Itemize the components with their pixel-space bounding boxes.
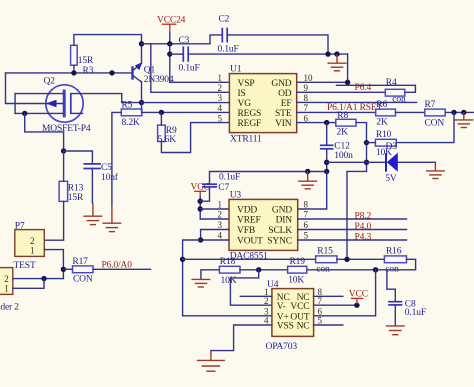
node rail mid <box>109 70 114 75</box>
wire U1 pin3 VG <box>142 102 230 104</box>
node Q1 collector top <box>139 41 144 46</box>
wire R8 right down to D3 node <box>347 123 367 260</box>
svg-text:TEST: TEST <box>14 261 36 271</box>
svg-text:8.2K: 8.2K <box>122 118 140 128</box>
svg-text:CON: CON <box>425 118 445 128</box>
resistor R16 <box>384 247 406 275</box>
resistor R4 <box>385 78 406 104</box>
wire U4 pin1 NC stub <box>240 295 272 297</box>
svg-text:R8: R8 <box>337 111 348 121</box>
node R3-rail <box>71 70 76 75</box>
svg-text:1: 1 <box>4 283 9 293</box>
svg-text:SYNC: SYNC <box>267 237 292 247</box>
svg-text:2: 2 <box>4 274 9 284</box>
wire pin10 GND <box>297 54 348 82</box>
svg-text:VSP: VSP <box>238 79 255 89</box>
wire node to R13 <box>63 151 65 181</box>
wire VCC stem to U3 pin2 <box>200 197 229 219</box>
svg-text:2: 2 <box>264 296 269 306</box>
ground top right <box>328 54 347 71</box>
svg-text:2K: 2K <box>376 117 388 127</box>
wire R5 left down to ground <box>112 112 121 205</box>
op-amp U1 XTR111 <box>218 65 314 145</box>
svg-text:3: 3 <box>218 93 223 103</box>
wire U1 pin7 STE to R6 <box>297 111 376 113</box>
svg-text:5.6K: 5.6K <box>158 135 176 145</box>
capacitor C7 <box>202 172 240 193</box>
svg-text:DIN: DIN <box>276 216 293 226</box>
wire U3 pin8 GND up to rail <box>298 172 327 210</box>
svg-text:1: 1 <box>30 245 35 255</box>
ground under R18 left <box>191 279 210 287</box>
node C12 top <box>324 120 329 125</box>
svg-text:Header 2: Header 2 <box>0 303 19 313</box>
svg-text:GND: GND <box>271 79 291 89</box>
svg-text:2K: 2K <box>337 128 349 138</box>
node C3 rail <box>167 51 172 56</box>
svg-text:7: 7 <box>318 296 323 306</box>
capacitor C2 <box>218 15 239 55</box>
node R15/R16 tap <box>344 257 349 262</box>
node R7 ground <box>461 110 466 115</box>
wire U3 pin6 SCLK <box>298 229 407 231</box>
resistor R3 <box>71 45 94 76</box>
wire R13 to P7 pin2 <box>44 201 63 240</box>
power VCC for U4 <box>349 290 368 305</box>
wire node to C5 <box>64 151 93 164</box>
resistor R18 <box>219 257 240 286</box>
svg-text:6: 6 <box>304 113 309 123</box>
connector P7 <box>14 222 45 271</box>
node R18/R19 <box>256 267 261 272</box>
svg-text:5V: 5V <box>385 174 397 184</box>
svg-text:VG: VG <box>238 99 252 109</box>
wire U3 pin1 VDD <box>200 208 229 210</box>
svg-text:R15: R15 <box>317 247 333 257</box>
capacitor C8 <box>388 300 426 318</box>
wire VOUT rail to R15 <box>183 258 316 260</box>
svg-text:STE: STE <box>275 109 292 119</box>
svg-text:6: 6 <box>304 220 309 230</box>
wire R10 left lead <box>367 142 376 144</box>
diode D3 5V <box>385 142 398 184</box>
transistor Q1 2N3904 <box>131 62 174 85</box>
wire C8 top lead <box>387 270 395 302</box>
svg-text:REGS: REGS <box>238 109 262 119</box>
svg-text:10: 10 <box>304 73 314 83</box>
svg-text:U4: U4 <box>267 280 279 290</box>
transistor Q2 MOSFET-P4 <box>15 77 91 135</box>
node pin10 <box>345 80 350 85</box>
node Q1 emitter <box>139 100 144 105</box>
svg-text:4: 4 <box>218 103 223 113</box>
wire R7 right to edge <box>445 111 474 113</box>
node VCC24 <box>167 41 172 46</box>
wire C12 top lead <box>326 123 328 146</box>
wire R18/R19 node to U4 pin2 <box>230 270 272 305</box>
wire R6 to R7 <box>396 111 425 113</box>
capacitor C12 <box>320 142 353 162</box>
wire P6.4 stub over R4 <box>337 85 416 92</box>
svg-text:C7: C7 <box>218 183 229 193</box>
svg-text:5: 5 <box>304 231 309 241</box>
wire U4 pin7 VCC <box>314 304 357 306</box>
wire R9 top lead <box>160 112 162 125</box>
svg-text:R6: R6 <box>376 100 387 110</box>
node R7 feedback <box>451 110 456 115</box>
svg-text:C3: C3 <box>179 36 190 46</box>
svg-text:XTR111: XTR111 <box>230 135 262 145</box>
wire U1 pin2 IS <box>151 44 230 93</box>
svg-text:P4.3: P4.3 <box>355 233 372 243</box>
svg-text:1: 1 <box>218 200 223 210</box>
svg-text:2: 2 <box>218 83 223 93</box>
op-amp U3 DAC8551 <box>218 190 309 261</box>
wire R3 top to node <box>74 35 142 46</box>
svg-text:SCLK: SCLK <box>268 226 292 236</box>
svg-text:100n: 100n <box>334 151 353 161</box>
svg-text:OPA703: OPA703 <box>266 342 298 352</box>
svg-text:P8.2: P8.2 <box>355 212 372 222</box>
node C12 bottom <box>324 160 329 165</box>
wire node to R17 <box>63 268 72 270</box>
wire R15 to R16 <box>337 258 385 260</box>
node R10 left <box>364 140 369 145</box>
svg-text:VOUT: VOUT <box>237 237 263 247</box>
resistor R19 <box>288 257 307 285</box>
svg-text:7: 7 <box>304 103 309 113</box>
svg-text:R3: R3 <box>83 66 94 76</box>
svg-text:REGF: REGF <box>238 119 262 129</box>
node C5/R13 <box>61 148 66 153</box>
wire left drop to gate arrow <box>6 73 46 104</box>
svg-text:R16: R16 <box>386 247 402 257</box>
wire U4 pin8 NC stub <box>314 295 343 297</box>
resistor R13 <box>59 181 84 203</box>
wire C3 right rail to pin10 drop <box>188 53 347 55</box>
wire H2 pin1 join <box>13 279 44 289</box>
op-amp U4 OPA703 <box>264 280 323 352</box>
ground under C5 <box>83 203 102 225</box>
ground mid rail <box>298 172 317 189</box>
svg-text:R17: R17 <box>72 257 88 267</box>
wire R9 bottom loop to U1 pin5 <box>161 123 229 153</box>
svg-text:R7: R7 <box>425 100 436 110</box>
svg-text:9: 9 <box>304 83 309 93</box>
svg-text:15R: 15R <box>78 56 94 66</box>
svg-text:P6.1/A1 RSET: P6.1/A1 RSET <box>327 103 383 113</box>
wire C5 bottom <box>91 169 93 204</box>
wire C7 top to ground rail <box>210 172 327 185</box>
svg-text:U3: U3 <box>230 190 242 200</box>
svg-text:P4.0: P4.0 <box>355 222 372 232</box>
svg-text:15R: 15R <box>68 193 84 203</box>
node rail ground tap <box>305 169 310 174</box>
wire base rail y73 <box>6 72 132 74</box>
wire emitter node to R5 right <box>141 103 143 113</box>
svg-text:3: 3 <box>218 220 223 230</box>
svg-text:R13: R13 <box>68 184 84 194</box>
svg-text:0.1uF: 0.1uF <box>219 172 240 182</box>
node VOUT rail <box>180 257 185 262</box>
wire U1 pin8 EF stub <box>297 101 417 103</box>
wire VCC stem to C3 rail <box>169 44 171 83</box>
node VFB/VOUT <box>198 237 203 242</box>
svg-text:VDD: VDD <box>237 206 257 216</box>
ground under R5 left <box>102 205 121 232</box>
wire C12 node to D3 node <box>327 161 367 163</box>
node R9 top <box>159 110 164 115</box>
svg-text:2: 2 <box>218 210 223 220</box>
svg-text:C12: C12 <box>334 142 350 152</box>
svg-text:P6.4: P6.4 <box>355 83 372 93</box>
svg-text:P7: P7 <box>15 222 25 232</box>
node R17 left <box>61 267 66 272</box>
wire D3 left lead <box>367 161 387 163</box>
svg-text:10K: 10K <box>288 275 304 285</box>
node H2 join <box>41 276 46 281</box>
svg-text:U1: U1 <box>230 65 242 75</box>
node C2 drop <box>325 51 330 56</box>
wire R18 left to ground <box>201 270 220 279</box>
wire C8 bottom lead <box>394 305 396 326</box>
resistor R17 <box>72 257 93 285</box>
svg-text:0.1uF: 0.1uF <box>405 308 426 318</box>
ground right of R7 <box>454 112 473 127</box>
svg-text:OD: OD <box>278 89 292 99</box>
wire U1 pin6 VIN to R8 <box>297 122 336 124</box>
svg-text:4: 4 <box>218 231 223 241</box>
svg-text:NC: NC <box>297 322 310 332</box>
svg-text:4: 4 <box>264 316 269 326</box>
resistor R9 <box>158 125 177 145</box>
svg-text:GND: GND <box>272 206 292 216</box>
node Q2 source tap <box>22 111 27 116</box>
resistor R8 <box>336 111 356 138</box>
node OUT feedback <box>373 267 378 272</box>
wire Q1 collector up <box>141 44 143 64</box>
wire R18 to R19 <box>240 269 288 271</box>
wire C2 right to ground rail <box>227 35 328 54</box>
wire U1 pin1 VSP <box>170 81 230 83</box>
wire Q1 emitter down <box>141 82 143 103</box>
wire C7 bottom to VCC node <box>200 187 209 201</box>
wire R16 right down to feedback rail <box>307 259 416 270</box>
wire U4 pin5 NC stub <box>314 324 343 326</box>
wire U3 pin5 SYNC <box>298 239 407 241</box>
svg-text:0.1uF: 0.1uF <box>218 45 239 55</box>
svg-text:0.1uF: 0.1uF <box>179 64 200 74</box>
wire rail y54 <box>170 53 184 55</box>
svg-text:R10: R10 <box>376 130 392 140</box>
svg-text:8: 8 <box>304 200 309 210</box>
svg-text:V-: V- <box>277 302 286 312</box>
svg-text:10nf: 10nf <box>101 172 119 183</box>
power VCC for U3 <box>191 183 210 198</box>
wire R17 right stub P6.0/A0 <box>93 268 151 270</box>
svg-text:VIN: VIN <box>275 119 292 129</box>
svg-text:VCC: VCC <box>290 302 309 312</box>
capacitor C5 <box>83 163 118 183</box>
svg-text:P6.0/A0: P6.0/A0 <box>102 260 133 270</box>
resistor R7 <box>425 100 446 128</box>
wire H2 pin2 stub <box>13 278 64 280</box>
svg-text:5: 5 <box>318 316 323 326</box>
svg-text:VSS: VSS <box>277 322 294 332</box>
wire U3 pin7 DIN <box>298 218 407 220</box>
node C7 return <box>198 199 203 204</box>
ground under U4 VSS <box>197 351 225 372</box>
svg-text:R19: R19 <box>290 257 306 267</box>
svg-text:8: 8 <box>304 93 309 103</box>
wire source down to C5/R13 node <box>25 113 64 151</box>
wire REGS row R5 to U1 pin4 <box>142 111 230 113</box>
svg-text:C5: C5 <box>101 163 112 173</box>
node D3 left <box>364 160 369 165</box>
svg-text:R4: R4 <box>386 78 397 88</box>
wire U4 pin4 VSS to ground <box>211 325 272 351</box>
node ground tap <box>334 51 339 56</box>
wire feedback to U4 pin6 OUT <box>314 270 376 316</box>
svg-text:2: 2 <box>30 236 35 246</box>
wire VOUT net left and down <box>183 240 272 316</box>
svg-text:VFB: VFB <box>237 226 255 236</box>
wire VCC24 node rail <box>142 35 223 44</box>
capacitor C3 <box>179 36 200 74</box>
svg-text:Q2: Q2 <box>44 77 56 87</box>
svg-text:CON: CON <box>73 275 93 285</box>
svg-text:5: 5 <box>218 113 223 123</box>
svg-text:R5: R5 <box>122 101 133 111</box>
node U4 VCC <box>354 303 359 308</box>
svg-text:C2: C2 <box>219 15 230 25</box>
svg-text:IS: IS <box>238 89 246 99</box>
svg-text:7: 7 <box>304 210 309 220</box>
svg-text:D3: D3 <box>386 142 398 152</box>
node rail C12 <box>324 169 329 174</box>
wire Q2 drain to R5 node <box>71 94 142 103</box>
wire U1 pin9 OD to R4 <box>297 91 386 93</box>
svg-text:R18: R18 <box>220 257 236 267</box>
svg-text:1: 1 <box>218 73 223 83</box>
ground under D3 <box>426 162 445 178</box>
wire R7 node down to R10 <box>396 112 454 142</box>
wire D3 right lead <box>398 161 436 163</box>
resistor R10 <box>375 130 396 158</box>
resistor R5 <box>121 101 142 129</box>
wire C12 bottom lead <box>326 149 328 172</box>
svg-text:EF: EF <box>281 99 292 109</box>
wire P7 pin1 to R17 node <box>44 250 63 279</box>
wire U3 pin3 VFB loop to pin4 <box>201 230 229 241</box>
wire R3 bottom <box>73 65 75 73</box>
ground under C8 <box>386 326 405 335</box>
resistor R15 <box>316 247 337 275</box>
svg-text:VREF: VREF <box>237 216 261 226</box>
connector Header2 <box>0 268 19 313</box>
resistor R6 <box>376 100 396 127</box>
node U3 pin1 <box>198 206 203 211</box>
power VCC24 <box>157 16 186 44</box>
